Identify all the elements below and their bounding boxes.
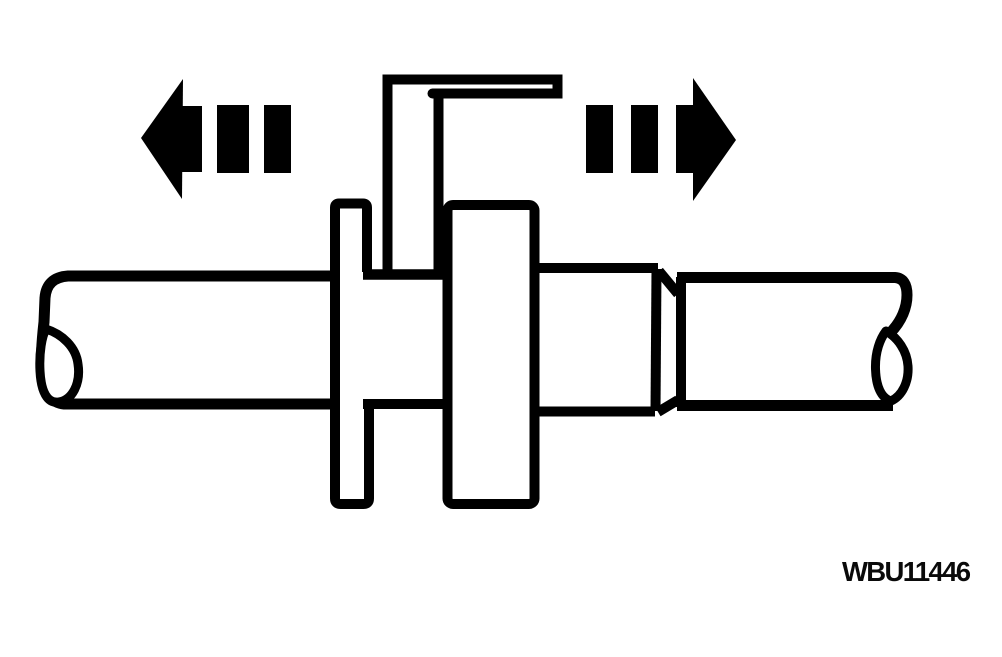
right arrow dash 1 [586,105,613,173]
chamfer top [659,271,678,294]
left arrow dash 2 [264,105,291,173]
center disc [448,205,535,504]
svg-text:WBU11446: WBU11446 [842,556,971,587]
thrust washer (left flange) [335,204,369,505]
journal neck bottom edge [534,407,655,417]
left arrow head [141,79,202,199]
journal neck top edge [534,263,658,273]
right shaft bottom edge [677,400,893,411]
right shaft end face [875,331,908,401]
chamfer bottom [658,400,678,412]
right shaft end face (left side) [676,277,686,407]
left shaft outline [41,276,333,404]
neck end face [656,269,657,411]
right arrow head [676,78,736,201]
left arrow dash 1 [217,105,249,173]
shaft surface in gap (bottom) [363,399,450,409]
pry tool [388,80,558,274]
right shaft top edge [677,278,907,334]
right arrow dash 2 [631,105,658,173]
shaft surface in gap (top) [363,269,449,280]
left shaft end face [40,329,79,402]
pry tool inner edge [434,96,444,273]
